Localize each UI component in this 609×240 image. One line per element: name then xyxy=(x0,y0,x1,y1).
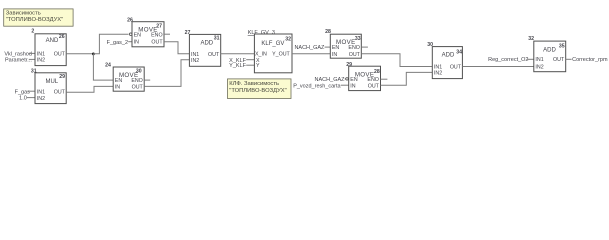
svg-text:AND: AND xyxy=(46,38,59,44)
comment box: КЛФ. Зависимость "ТОПЛИВО-ВОЗДУХ" xyxy=(228,79,292,99)
svg-text:P_vozd_resh_carta: P_vozd_resh_carta xyxy=(293,83,341,89)
svg-text:IN: IN xyxy=(134,40,139,46)
svg-text:OUT: OUT xyxy=(368,83,380,89)
svg-text:EN: EN xyxy=(115,78,123,84)
svg-text:IN2: IN2 xyxy=(535,65,543,71)
svg-text:F_gas: F_gas xyxy=(15,89,31,95)
svg-text:ADD: ADD xyxy=(442,53,455,59)
svg-text:Y: Y xyxy=(256,63,260,69)
svg-text:32: 32 xyxy=(285,37,291,43)
svg-text:KLF_GV: KLF_GV xyxy=(261,41,284,47)
svg-text:ENO: ENO xyxy=(348,45,359,51)
svg-text:IN: IN xyxy=(350,83,355,89)
svg-text:IN: IN xyxy=(332,52,337,58)
svg-text:31: 31 xyxy=(31,68,37,74)
svg-text:IN2: IN2 xyxy=(191,58,199,64)
svg-text:2: 2 xyxy=(31,28,34,34)
wire junction up to MOVE1.EN (negated) xyxy=(93,34,128,54)
node Y_KLF xyxy=(229,63,254,69)
svg-text:OUT: OUT xyxy=(208,52,220,58)
comment box: Зависимость "ТОПЛИВО-ВОЗДУХ" xyxy=(4,9,73,26)
svg-text:EN: EN xyxy=(332,45,340,51)
svg-text:EN: EN xyxy=(134,33,142,39)
node 1.0 xyxy=(19,96,35,102)
svg-text:IN2: IN2 xyxy=(37,58,45,64)
svg-text:Y_OUT: Y_OUT xyxy=(272,52,290,58)
svg-text:ENO: ENO xyxy=(131,78,142,84)
svg-text:OUT: OUT xyxy=(553,57,565,63)
ADD block 31 xyxy=(185,30,221,66)
wire junction down to MOVE2.EN xyxy=(93,54,113,80)
node X_KLF xyxy=(229,58,254,64)
svg-text:IN1: IN1 xyxy=(37,89,45,95)
svg-text:33: 33 xyxy=(355,36,361,42)
svg-text:1.0: 1.0 xyxy=(19,96,27,102)
svg-text:31: 31 xyxy=(214,36,220,42)
MOVE block 30 xyxy=(105,63,144,92)
MOVE block 27 (negated EN) xyxy=(127,18,164,47)
svg-text:IN2: IN2 xyxy=(37,96,45,102)
node P_vozd_resh_carta xyxy=(293,83,348,89)
svg-text:OUT: OUT xyxy=(132,84,144,90)
svg-text:X_IN: X_IN xyxy=(255,52,267,58)
wire ADD35.OUT to Corrector_rpm xyxy=(566,58,572,60)
wire MUL.OUT to MOVE2.IN xyxy=(66,86,113,92)
wire MOVE33.OUT to ADD34.IN1 xyxy=(361,54,432,67)
svg-text:30: 30 xyxy=(136,68,142,74)
svg-text:ADD: ADD xyxy=(200,40,213,46)
wire MOVE28.OUT to ADD34.IN2 xyxy=(381,72,433,85)
ADD block 35 xyxy=(528,36,565,71)
wire MOVE28.ENO stub xyxy=(381,78,388,80)
svg-text:OUT: OUT xyxy=(450,64,462,70)
svg-text:27: 27 xyxy=(156,24,162,30)
node NACH_GAZ (negated, to MOVE28.EN) xyxy=(315,77,349,83)
svg-text:"ТОПЛИВО-ВОЗДУХ": "ТОПЛИВО-ВОЗДУХ" xyxy=(6,17,63,23)
wire MOVE30.ENO stub xyxy=(144,79,150,81)
svg-text:30: 30 xyxy=(427,42,433,48)
svg-text:26: 26 xyxy=(59,34,65,40)
wire AND.OUT to junction xyxy=(66,53,93,55)
ADD block 34 xyxy=(427,42,462,78)
node Parametr xyxy=(5,58,35,64)
svg-text:29: 29 xyxy=(346,62,352,68)
svg-text:IN1: IN1 xyxy=(37,51,45,57)
svg-text:Parametr...: Parametr... xyxy=(5,58,32,64)
wire ADD31.OUT to KLF.X_IN xyxy=(221,53,255,55)
svg-text:Y_KLF: Y_KLF xyxy=(229,63,246,69)
svg-text:ENO: ENO xyxy=(367,77,378,83)
svg-text:EN: EN xyxy=(350,77,358,83)
svg-text:ADD: ADD xyxy=(543,48,556,54)
svg-text:OUT: OUT xyxy=(349,52,361,58)
svg-text:OUT: OUT xyxy=(151,40,163,46)
node Reg_correct_O2 xyxy=(488,57,534,63)
svg-text:Зависимость: Зависимость xyxy=(6,11,41,17)
wire KLF.Y_OUT to MOVE33.IN xyxy=(292,53,330,55)
node NACH_GAZ (to MOVE33.EN) xyxy=(294,45,330,51)
svg-text:28: 28 xyxy=(374,69,380,75)
svg-text:IN: IN xyxy=(115,84,120,90)
svg-text:27: 27 xyxy=(185,30,191,36)
svg-text:NACH_GAZ: NACH_GAZ xyxy=(315,77,346,83)
svg-text:MUL: MUL xyxy=(45,79,58,85)
MUL block 29 xyxy=(31,68,66,103)
svg-text:IN1: IN1 xyxy=(535,57,543,63)
node F_gas_2 xyxy=(107,40,132,46)
AND block 26 xyxy=(31,28,66,65)
svg-text:Corrector_rpm: Corrector_rpm xyxy=(572,57,608,63)
node Vkl_rashod xyxy=(4,51,35,57)
svg-text:F_gas_2: F_gas_2 xyxy=(107,40,128,46)
svg-text:ENO: ENO xyxy=(151,33,162,39)
svg-text:NACH_GAZ: NACH_GAZ xyxy=(294,45,325,51)
svg-text:Reg_correct_O2: Reg_correct_O2 xyxy=(488,57,528,63)
wire MOVE27.ENO stub xyxy=(164,33,170,35)
svg-text:34: 34 xyxy=(456,50,462,56)
svg-text:КЛФ. Зависимость: КЛФ. Зависимость xyxy=(229,81,279,87)
svg-text:35: 35 xyxy=(559,44,565,50)
svg-text:29: 29 xyxy=(59,74,65,80)
svg-text:"ТОПЛИВО-ВОЗДУХ": "ТОПЛИВО-ВОЗДУХ" xyxy=(229,88,286,94)
wire MOVE30.OUT to ADD31.IN2 xyxy=(144,60,189,87)
svg-text:26: 26 xyxy=(127,18,133,24)
node F_gas xyxy=(15,89,35,95)
svg-text:OUT: OUT xyxy=(54,89,66,95)
MOVE block 33 xyxy=(325,29,361,58)
junction dot xyxy=(92,53,95,56)
svg-text:28: 28 xyxy=(325,29,331,35)
wire MOVE27.OUT to ADD31.IN1 xyxy=(164,42,189,54)
svg-text:IN2: IN2 xyxy=(434,70,442,76)
KLF_GV block 32 (instance KLF_GV_3) xyxy=(248,30,292,73)
svg-text:Vkl_rashod: Vkl_rashod xyxy=(4,51,32,57)
wire MOVE33.ENO stub xyxy=(361,46,368,48)
svg-text:24: 24 xyxy=(105,63,111,69)
svg-text:32: 32 xyxy=(528,36,534,42)
MOVE block 28 xyxy=(346,62,380,91)
wire ADD34.OUT to ADD35.IN2 xyxy=(462,66,533,68)
svg-text:OUT: OUT xyxy=(54,51,66,57)
